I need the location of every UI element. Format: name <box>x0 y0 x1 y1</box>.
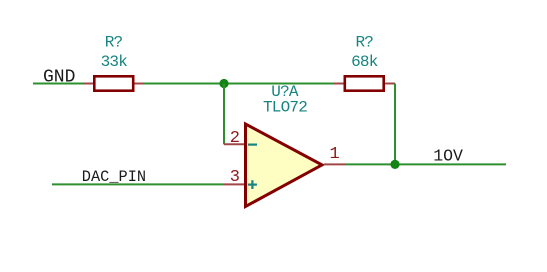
resistor R2 lead right <box>384 83 395 85</box>
svg-text:1: 1 <box>330 145 340 164</box>
resistor R1 lead left <box>83 83 94 85</box>
op-amp U1 pin 2 lead <box>224 143 245 145</box>
wire R2 down to output node B <box>394 84 396 165</box>
svg-text:R?: R? <box>105 34 123 52</box>
op-amp U1 body triangle <box>246 124 323 207</box>
resistor R1 lead right <box>134 83 145 85</box>
svg-text:3: 3 <box>230 168 240 187</box>
op-amp U1 pin 3 lead <box>224 183 245 185</box>
op-amp U1 pin 1 lead <box>324 163 346 165</box>
op-amp U1 inverting input minus sign <box>248 144 257 146</box>
wire R1 to R2 through node A <box>144 83 335 85</box>
resistor R1 body <box>94 76 133 90</box>
svg-text:33k: 33k <box>101 53 128 71</box>
resistor R2 lead left <box>334 83 345 85</box>
svg-text:DAC_PIN: DAC_PIN <box>82 168 146 186</box>
svg-text:1OV: 1OV <box>433 147 463 166</box>
svg-text:GND: GND <box>43 68 75 88</box>
wire node A down to pin 2 <box>223 84 225 145</box>
svg-text:TLO72: TLO72 <box>263 99 307 117</box>
op-amp U1 non-inverting input plus sign <box>248 180 257 189</box>
junction node B on output <box>390 160 399 169</box>
wire GND net to R1 <box>33 83 84 85</box>
svg-text:R?: R? <box>355 34 373 52</box>
resistor R2 body <box>345 76 384 90</box>
svg-text:2: 2 <box>230 129 240 148</box>
wire DAC_PIN to pin 3 <box>52 183 224 185</box>
svg-text:68k: 68k <box>351 53 378 71</box>
wire output to 10V <box>346 163 506 165</box>
junction node A <box>219 79 228 88</box>
